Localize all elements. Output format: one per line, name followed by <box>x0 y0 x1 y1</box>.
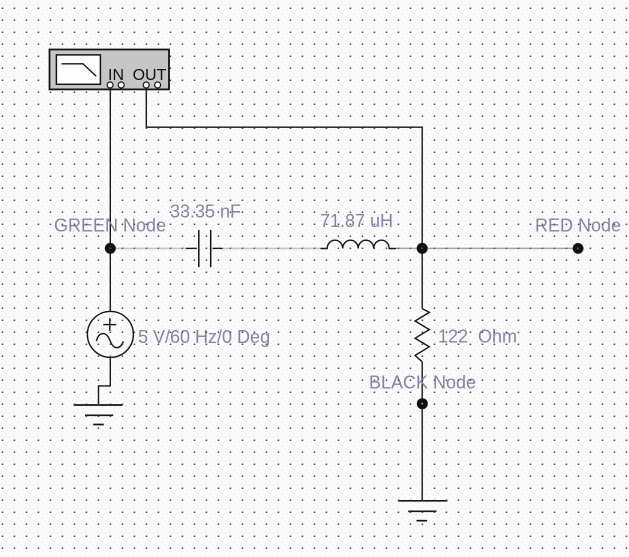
wire AC source down with jog to left ground <box>99 357 111 404</box>
node BLACK <box>417 398 428 409</box>
wire green net: capacitor to inductor <box>223 247 322 249</box>
inductor L1 <box>321 240 397 248</box>
bode plotter terminals <box>107 82 161 88</box>
wire red net: junction to RED node <box>422 247 578 249</box>
wire GREEN node down to AC source <box>109 248 111 311</box>
ground (right, under resistor) <box>398 501 447 521</box>
capacitor C1 <box>186 230 223 267</box>
wire red net: inductor to junction <box>396 247 422 249</box>
ground (left, under AC source) <box>74 405 123 425</box>
wire IN terminal down to GREEN node <box>109 88 111 249</box>
node RED <box>573 243 584 254</box>
wire green net: GREEN node to capacitor <box>110 247 187 249</box>
AC source V1 <box>87 311 133 357</box>
wire resistor down to BLACK node and ground <box>421 362 423 501</box>
node GREEN <box>105 243 116 254</box>
wire junction down to resistor <box>421 248 423 308</box>
wire OUT terminal down then right then down to junction <box>146 88 422 249</box>
junction node (GREEN/RED/resistor) <box>417 243 428 254</box>
resistor R1 <box>415 309 429 362</box>
bode plotter XBP1 <box>50 50 170 90</box>
